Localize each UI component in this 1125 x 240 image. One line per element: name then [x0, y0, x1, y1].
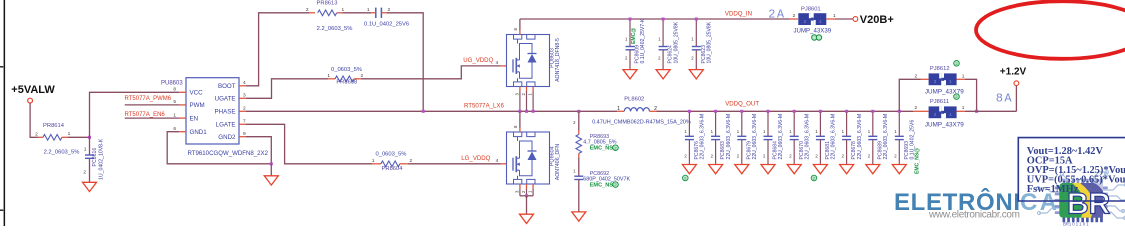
transistor Q PQ8604 low side	[507, 132, 550, 184]
svg-text:0.47UH_CMMB062D-R47MS_15A_20%: 0.47UH_CMMB062D-R47MS_15A_20%	[592, 120, 691, 126]
svg-text:5: 5	[173, 99, 176, 105]
svg-text:PR8614: PR8614	[43, 123, 65, 129]
svg-text:10U_0805_25V8K: 10U_0805_25V8K	[707, 21, 713, 63]
svg-text:PHASE: PHASE	[215, 109, 236, 116]
inductor PL8602	[624, 108, 649, 112]
wire LX to PR8693	[578, 111, 580, 130]
wire +1.2V riser	[1015, 86, 1017, 112]
pin 8 VCC	[179, 91, 186, 93]
junction PC8693	[898, 110, 901, 113]
wire boot cap to LX	[387, 13, 424, 112]
wire source pin 2 PQ8603	[526, 87, 528, 92]
svg-text:AON7406_DFN: AON7406_DFN	[555, 144, 561, 181]
svg-text:0_0603_5%: 0_0603_5%	[376, 152, 407, 158]
resistor PR8693	[576, 134, 582, 153]
ground PC8692	[572, 212, 586, 221]
terminal +1.2V	[1014, 81, 1019, 86]
wire to UG_VDDQ	[361, 66, 501, 79]
wire source merge PQ8604	[520, 195, 533, 197]
junction PC8681	[819, 110, 822, 113]
svg-text:EMC_NS@: EMC_NS@	[915, 148, 921, 174]
capacitor PC8613 0.1U bootstrap	[375, 8, 377, 18]
svg-text:www.eletronicabr.com: www.eletronicabr.com	[928, 210, 1020, 221]
svg-text:A: A	[777, 8, 785, 22]
wire PJ8612 pin2	[899, 79, 920, 111]
wire source pin 1 PQ8603	[532, 87, 534, 92]
svg-text:UG_VDDQ: UG_VDDQ	[463, 57, 493, 64]
jumper body PJ8612	[929, 73, 957, 85]
svg-text:1: 1	[962, 105, 965, 111]
pin 5 PWM	[179, 104, 186, 106]
resistor PR8613	[318, 10, 337, 16]
svg-text:22U_0603_6.3V6-M: 22U_0603_6.3V6-M	[726, 114, 732, 160]
svg-text:22U_0603_6.3V6-M: 22U_0603_6.3V6-M	[831, 114, 837, 160]
capacitor PC8693	[892, 111, 906, 174]
pin 6 GND1	[179, 131, 186, 133]
wire to ground	[270, 164, 272, 176]
svg-text:1: 1	[372, 158, 375, 164]
svg-text:EMC_NS: EMC_NS	[590, 146, 614, 152]
wire to PC8616	[89, 137, 91, 155]
stub PJ8601 pin2	[790, 18, 799, 20]
junction GND node	[270, 162, 273, 165]
svg-text:+1.2V: +1.2V	[1000, 67, 1027, 78]
svg-text:6: 6	[173, 126, 176, 132]
table spec box	[1018, 138, 1125, 201]
svg-text:8: 8	[173, 87, 176, 93]
wire VDDQ_OUT rail	[657, 110, 914, 112]
capacitor PC8623	[689, 19, 703, 79]
svg-text:1: 1	[327, 73, 330, 79]
stub PJ8612 pin1	[957, 78, 966, 80]
capacitor PC8624	[656, 19, 670, 79]
icon EMC PJ8601	[812, 35, 817, 40]
svg-text:1U_0402_10V8-K: 1U_0402_10V8-K	[98, 138, 104, 180]
svg-text:RT9610CGQW_WDFN8_2X2: RT9610CGQW_WDFN8_2X2	[188, 150, 269, 157]
capacitor PC8670	[787, 111, 801, 174]
svg-text:A: A	[1004, 92, 1012, 106]
op-amp/driver U PU8603 box	[186, 78, 239, 144]
junction PC8684	[767, 110, 770, 113]
pin 4 BOOT	[239, 85, 246, 87]
junction source PQ8604	[525, 194, 528, 197]
junction boot cap	[422, 110, 425, 113]
stub PL8602 pin1	[617, 110, 624, 112]
svg-text:1: 1	[962, 73, 965, 79]
capacitor PC8678	[840, 111, 854, 174]
junction PC8624	[662, 18, 665, 21]
svg-text:0_0603_5%: 0_0603_5%	[331, 67, 362, 73]
pin 7 LGATE	[239, 123, 246, 125]
junction PC8609	[629, 18, 632, 21]
svg-text:LG_VDDQ: LG_VDDQ	[461, 155, 490, 162]
ground PC8616	[83, 182, 97, 191]
svg-text:2: 2	[35, 132, 38, 138]
capacitor PC8679	[735, 111, 749, 174]
svg-text:VDDQ_IN: VDDQ_IN	[725, 11, 752, 18]
svg-text:PJ8611: PJ8611	[930, 99, 949, 105]
svg-text:2: 2	[915, 105, 918, 111]
svg-text:2: 2	[410, 158, 413, 164]
junction PC8679	[740, 110, 743, 113]
capacitor PC8692	[574, 175, 583, 177]
svg-text:22U_0603_6.3V6-M: 22U_0603_6.3V6-M	[857, 114, 863, 160]
ground PQ8604	[520, 214, 534, 223]
svg-text:1: 1	[367, 7, 370, 13]
svg-text:22U_0603_6.3V6-M: 22U_0603_6.3V6-M	[778, 114, 784, 160]
svg-text:22U_0603_6.3V6-M: 22U_0603_6.3V6-M	[804, 114, 810, 160]
terminal +5VALW	[28, 98, 33, 103]
wire to V20B+	[835, 18, 853, 20]
stub PR8614 pin2	[38, 136, 43, 138]
resistor PR8604	[381, 161, 400, 167]
capacitor PC8616	[85, 154, 94, 156]
svg-text:VDDQ_OUT: VDDQ_OUT	[725, 100, 759, 107]
svg-text:8: 8	[996, 92, 1003, 106]
junction LX snubber	[577, 110, 580, 113]
icon EMC PC8681	[811, 175, 817, 181]
svg-text:1: 1	[173, 112, 176, 118]
transistor Q PQ8603 high side	[507, 35, 550, 87]
page border left	[4, 0, 6, 226]
junction PC8678	[845, 110, 848, 113]
wire node to VCC pin	[90, 92, 180, 137]
wire BOOT up	[246, 13, 310, 86]
svg-text:JUMP_43X79: JUMP_43X79	[925, 122, 964, 129]
svg-text:VCC: VCC	[190, 90, 204, 97]
resistor PR8614	[43, 135, 62, 141]
svg-text:2: 2	[768, 8, 775, 22]
junction +1.2V node	[975, 110, 978, 113]
stub PJ8601 pin1	[826, 18, 835, 20]
svg-text:PWM: PWM	[190, 102, 205, 109]
wire PR8613 to PC8613	[343, 12, 372, 14]
capacitor PC8683	[709, 111, 723, 174]
svg-text:1: 1	[617, 106, 620, 112]
stub gate PQ8603	[501, 65, 507, 67]
svg-text:BR1 0 1 1 0 1: BR1 0 1 1 0 1	[1063, 222, 1089, 227]
junction PC8623	[695, 18, 698, 21]
stub gate PQ8604	[501, 163, 507, 165]
junction PC8676	[688, 110, 691, 113]
svg-text:2.2_0603_5%: 2.2_0603_5%	[44, 149, 80, 155]
zone tick lower	[0, 209, 3, 211]
junction PC8683	[714, 110, 717, 113]
pin 9 GND2	[239, 136, 246, 138]
svg-text:PJ8612: PJ8612	[930, 66, 950, 72]
junction node VCC5	[88, 136, 91, 139]
svg-text:EMC_NS: EMC_NS	[590, 183, 614, 189]
wire to ground PQ8604	[526, 196, 528, 214]
svg-text:22U_0603_6.3V6-M: 22U_0603_6.3V6-M	[700, 114, 706, 160]
stub PJ8611 pin2	[913, 110, 929, 112]
wire UGATE	[246, 79, 328, 99]
svg-text:EN: EN	[190, 115, 199, 122]
zone tick upper	[0, 66, 3, 68]
wire GND2 down	[246, 137, 271, 164]
svg-text:2: 2	[361, 73, 364, 79]
svg-text:1: 1	[84, 147, 87, 153]
svg-text:2.2_0603_5%: 2.2_0603_5%	[317, 26, 353, 32]
wire drain pin 8 PQ8604	[519, 111, 521, 128]
svg-text:0.1U_0402_25V6: 0.1U_0402_25V6	[364, 21, 409, 27]
svg-text:PJ8601: PJ8601	[801, 6, 821, 12]
svg-text:3: 3	[243, 93, 246, 99]
ground PU8603	[264, 176, 278, 185]
svg-text:PR8604: PR8604	[382, 166, 404, 172]
icon EMC PJ8611	[954, 94, 960, 100]
wire +5VALW down	[30, 103, 38, 137]
wire GND1 loop	[167, 132, 271, 164]
svg-text:UGATE: UGATE	[215, 96, 236, 103]
jumper body PJ8611	[929, 106, 957, 118]
logo chip graphic	[1036, 170, 1125, 226]
svg-text:Fsw=1MHz: Fsw=1MHz	[1027, 184, 1079, 195]
wire RT5077A_PWM6	[125, 104, 179, 106]
svg-text:JUMP_43X39: JUMP_43X39	[794, 27, 832, 34]
svg-text:PR8613: PR8613	[317, 0, 338, 6]
junction PC8670	[793, 110, 796, 113]
wire PC8616 to ground	[89, 158, 91, 182]
wire LGATE	[246, 124, 372, 164]
wire source pin 2 PQ8604	[526, 184, 528, 189]
junction PC8689	[871, 110, 874, 113]
svg-text:PR8608: PR8608	[336, 80, 357, 86]
svg-text:AON7418_DFN8-5: AON7418_DFN8-5	[555, 38, 561, 82]
wire source pin 3 PQ8604	[519, 184, 521, 189]
wire PR8614 to node VCC5	[68, 136, 90, 138]
wire PJ8612 pin1 down	[965, 79, 977, 111]
svg-text:2: 2	[306, 7, 309, 13]
svg-text:4: 4	[496, 60, 499, 66]
svg-text:BOOT: BOOT	[218, 83, 236, 90]
svg-text:RT5077A_LX6: RT5077A_LX6	[464, 102, 504, 109]
svg-text:PC8616: PC8616	[92, 148, 98, 167]
svg-text:1: 1	[833, 13, 836, 19]
svg-text:22U_0603_6.3V6-M: 22U_0603_6.3V6-M	[883, 114, 889, 160]
terminal V20B+	[853, 17, 858, 22]
jumper body PJ8601	[798, 13, 826, 25]
wire VDDQ_IN rail	[520, 18, 790, 20]
svg-text:LGATE: LGATE	[216, 122, 236, 129]
svg-text:PL8602: PL8602	[624, 96, 644, 102]
svg-text:V20B+: V20B+	[860, 14, 894, 26]
wire to +1.2V	[965, 110, 1016, 112]
wire PC8692 to ground	[578, 180, 580, 212]
annotation red ellipse	[976, 1, 1125, 59]
stub PJ8611 pin1	[957, 110, 966, 112]
svg-text:4: 4	[496, 158, 499, 164]
svg-text:0.1U_0402_25V7-K: 0.1U_0402_25V7-K	[640, 18, 646, 63]
svg-text:2: 2	[793, 13, 796, 19]
svg-text:10U_0805_25V8K: 10U_0805_25V8K	[673, 21, 679, 63]
wire source pin 1 PQ8604	[532, 184, 534, 189]
svg-text:4: 4	[243, 80, 246, 86]
capacitor PC8609	[623, 19, 637, 79]
svg-text:1: 1	[68, 131, 71, 137]
svg-text:RT5077A_EN6: RT5077A_EN6	[125, 112, 166, 118]
stub PL8602 pin2	[650, 110, 657, 112]
svg-text:PU8603: PU8603	[161, 80, 183, 86]
resistor PR8608	[335, 76, 354, 82]
svg-text:2: 2	[243, 106, 246, 112]
svg-text:22U_0603_6.3V6-M: 22U_0603_6.3V6-M	[752, 114, 758, 160]
icon EMC PC8676	[683, 175, 689, 181]
stub PR8614 pin1	[62, 136, 68, 138]
pin 1 EN	[179, 117, 186, 119]
capacitor PC8689	[866, 111, 880, 174]
logo ELETRONICA BR	[894, 188, 1057, 221]
capacitor PC8681	[813, 111, 827, 174]
capacitor PC8684	[761, 111, 775, 174]
svg-text:2: 2	[915, 73, 918, 79]
svg-text:9: 9	[243, 131, 246, 137]
pin 2 PHASE	[239, 110, 246, 112]
svg-text:EMC@: EMC@	[631, 28, 637, 44]
icon EMC PJ8612	[954, 61, 960, 67]
pin 3 UGATE	[239, 97, 246, 99]
svg-text:RT5077A_PWM6: RT5077A_PWM6	[125, 96, 172, 102]
svg-text:2: 2	[83, 170, 86, 176]
capacitor PC8676	[682, 111, 696, 174]
wire drain PQ8603	[519, 19, 521, 31]
svg-text:7: 7	[243, 119, 246, 125]
svg-text:GND2: GND2	[218, 134, 236, 141]
wire source pin 3 PQ8603	[519, 87, 521, 92]
wire to LG_VDDQ	[408, 163, 501, 165]
wire RT5077A_EN6	[125, 117, 179, 119]
svg-text:+5VALW: +5VALW	[11, 84, 55, 96]
wire PR8693 to PC8692	[578, 158, 580, 177]
svg-text:GND1: GND1	[190, 129, 208, 136]
wire RT5077A_LX6 phase line	[246, 110, 617, 112]
